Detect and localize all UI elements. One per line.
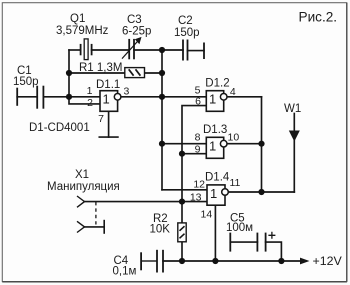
svg-text:Рис.2.: Рис.2. <box>299 9 338 24</box>
node M (C5 / rail junction) <box>278 258 284 264</box>
wire D1.4 output <box>228 191 294 193</box>
svg-text:1: 1 <box>210 186 217 201</box>
svg-text:W1: W1 <box>284 103 301 115</box>
wire bus vertical <box>161 50 163 190</box>
node J (D1.4 out / output vertical junction) <box>258 189 264 195</box>
wire C5 left lead <box>230 241 257 243</box>
svg-text:C3: C3 <box>127 14 142 26</box>
wire top rail right segment to C2 <box>134 49 183 51</box>
svg-text:10K: 10K <box>150 224 171 236</box>
svg-text:D1-CD4001: D1-CD4001 <box>29 122 90 134</box>
node L (pin14 / rail junction) <box>212 258 218 264</box>
wire C1 to pin1 <box>43 96 100 98</box>
node K (R2 / rail junction) <box>179 258 185 264</box>
wire C2 right lead <box>188 50 205 52</box>
wire D1.1 output to bus <box>121 96 162 98</box>
wire key vertical lower <box>181 154 183 223</box>
dashed link of X1 <box>95 202 97 225</box>
node I (D1.3 out / output vertical junction) <box>258 141 264 147</box>
svg-text:12: 12 <box>193 179 205 191</box>
svg-text:1: 1 <box>209 92 216 107</box>
svg-text:X1: X1 <box>75 169 89 181</box>
svg-text:6-25p: 6-25p <box>122 25 151 37</box>
wire bus to pin5 <box>162 96 206 98</box>
svg-text:9: 9 <box>195 144 201 156</box>
wire pin14 <box>214 205 216 261</box>
wire D1.3 output <box>227 143 262 145</box>
wire C1 row <box>17 96 37 98</box>
svg-text:4: 4 <box>230 86 236 98</box>
svg-text:1: 1 <box>103 92 110 107</box>
svg-text:8: 8 <box>195 132 201 144</box>
capacitor C4 <box>141 250 163 273</box>
svg-text:10: 10 <box>228 132 240 144</box>
svg-text:1: 1 <box>209 139 216 154</box>
ground bar pin7 <box>99 136 118 138</box>
wire bus to pin8 <box>162 143 206 145</box>
resistor R2 <box>178 223 186 242</box>
svg-text:1: 1 <box>87 85 93 97</box>
svg-text:100м: 100м <box>226 222 253 234</box>
op-amp U3: gate D1.3 <box>206 137 227 158</box>
node F (pin8 / bus junction) <box>159 141 165 147</box>
node H (key line / pin13 junction) <box>179 199 185 205</box>
wire R1 row right <box>145 72 163 74</box>
svg-text:C2: C2 <box>178 15 193 27</box>
svg-text:D1.3: D1.3 <box>203 124 227 136</box>
antenna W1 <box>289 131 300 142</box>
svg-text:Q1: Q1 <box>70 13 85 25</box>
svg-text:150p: 150p <box>13 76 39 88</box>
svg-text:3: 3 <box>124 86 130 98</box>
svg-text:11: 11 <box>230 177 241 189</box>
svg-text:2: 2 <box>87 97 93 109</box>
svg-text:3,579MHz: 3,579MHz <box>56 25 109 37</box>
svg-text:Манипуляция: Манипуляция <box>47 181 120 193</box>
svg-text:+12V: +12V <box>313 254 343 268</box>
node E (D1.1 out / bus junction) <box>159 94 165 100</box>
svg-text:R1 1,3M: R1 1,3M <box>79 62 122 74</box>
wire pin7 <box>108 111 110 137</box>
node B (left vertical / C1-pin1 junction) <box>66 94 72 100</box>
wire pin2 jog <box>69 97 100 104</box>
svg-text:13: 13 <box>190 192 202 204</box>
connector X1 lower prong <box>77 220 104 234</box>
capacitor C1 <box>17 86 43 109</box>
+12V supply arrow <box>300 258 310 265</box>
svg-text:6: 6 <box>195 96 201 108</box>
capacitor C5 (electrolytic) <box>230 232 275 252</box>
svg-text:D1.2: D1.2 <box>205 78 229 90</box>
node D (R1 / bus junction) <box>159 70 165 76</box>
svg-text:7: 7 <box>98 113 104 125</box>
connector X1 upper prong <box>77 196 85 207</box>
wire R1 row left <box>69 72 125 74</box>
wire pin6 jog <box>182 106 206 154</box>
wire keying line X1 to pin13 <box>85 201 208 203</box>
variable capacitor C3 <box>122 39 140 60</box>
op-amp U2: gate D1.2 <box>206 91 227 112</box>
node G (key vertical / pin9 junction) <box>179 151 185 157</box>
svg-text:D1.4: D1.4 <box>205 172 230 184</box>
wire R2 bottom lead <box>181 242 183 261</box>
svg-text:14: 14 <box>201 209 213 221</box>
wire left vertical <box>68 50 70 97</box>
svg-text:D1.1: D1.1 <box>96 79 120 91</box>
wire bottom rail <box>163 260 303 262</box>
node C (top rail / bus junction) <box>159 47 165 53</box>
wire bus to pin12 <box>162 189 207 191</box>
wire pin9 <box>182 153 206 155</box>
wire top rail left segment <box>69 49 81 51</box>
op-amp U1: gate D1.1 <box>100 91 121 112</box>
svg-text:0,1м: 0,1м <box>113 266 137 278</box>
node A (left vertical / R1 junction) <box>66 70 72 76</box>
crystal Q1 <box>81 39 92 60</box>
wire X1 lower stub <box>85 226 105 228</box>
wire top rail mid segment <box>92 49 130 51</box>
capacitor C2 <box>183 40 204 61</box>
svg-text:150p: 150p <box>174 27 200 39</box>
wire C5 right lead and drop <box>266 242 282 261</box>
wire output vertical <box>261 97 263 192</box>
wire D1.2 output <box>227 96 262 98</box>
op-amp U4: gate D1.4 <box>207 185 228 205</box>
wire antenna riser <box>293 114 295 193</box>
resistor R1 <box>125 68 145 78</box>
